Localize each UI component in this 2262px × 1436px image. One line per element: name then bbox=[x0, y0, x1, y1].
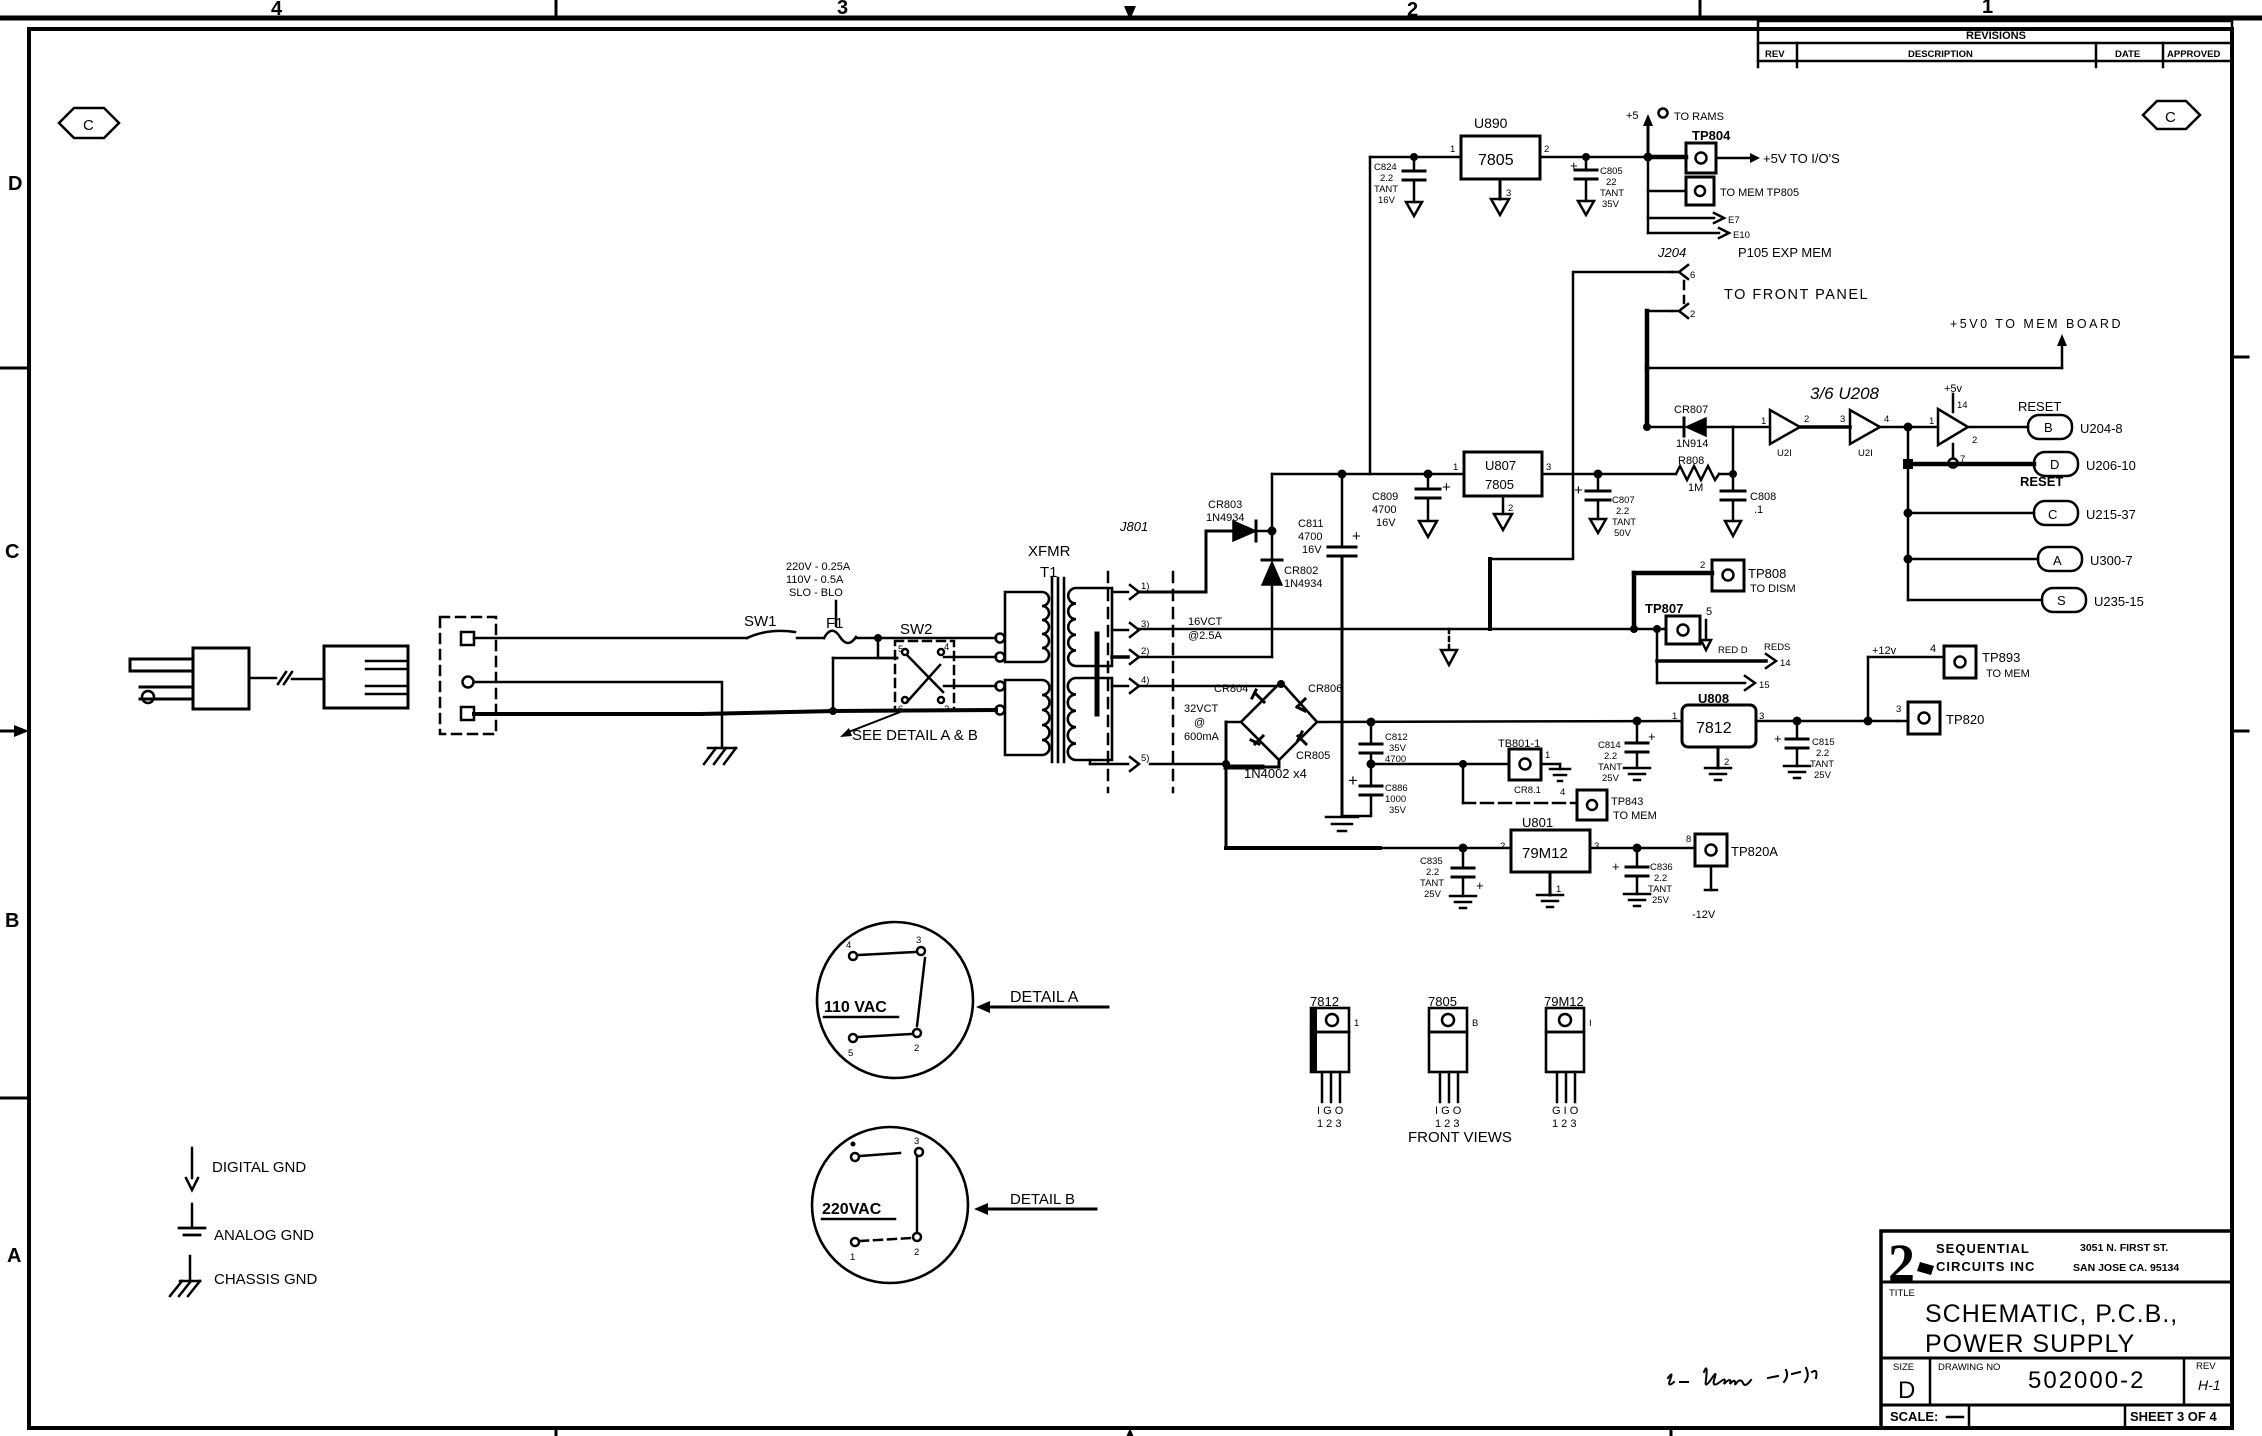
svg-text:U215-37: U215-37 bbox=[2086, 507, 2136, 522]
svg-text:+: + bbox=[1348, 771, 1358, 790]
svg-text:3: 3 bbox=[914, 1136, 919, 1147]
svg-text:U235-15: U235-15 bbox=[2094, 594, 2144, 609]
earth wire bbox=[474, 682, 722, 748]
wire node up to +8 rail bbox=[1271, 474, 1274, 531]
svg-text:CIRCUITS INC: CIRCUITS INC bbox=[1936, 1259, 2035, 1274]
line connector J1 bbox=[324, 646, 408, 708]
terminal block TB1 dashed bbox=[440, 617, 496, 734]
svg-text:+: + bbox=[1476, 878, 1484, 893]
svg-text:1: 1 bbox=[1556, 884, 1561, 895]
tag C row bbox=[1904, 501, 2136, 525]
svg-text:25V: 25V bbox=[1814, 770, 1832, 781]
svg-text:E7: E7 bbox=[1728, 215, 1740, 226]
fuse F1 bbox=[824, 615, 878, 643]
svg-text:220VAC: 220VAC bbox=[822, 1201, 882, 1218]
svg-text:2: 2 bbox=[1724, 757, 1729, 768]
svg-text:7812: 7812 bbox=[1696, 720, 1732, 737]
junction TP807 feed bbox=[1653, 625, 1661, 633]
svg-text:TP820A: TP820A bbox=[1731, 844, 1778, 859]
U890 output wire bbox=[1540, 156, 1648, 159]
svg-text:TP807: TP807 bbox=[1645, 601, 1683, 616]
see detail note bbox=[840, 712, 978, 744]
svg-text:3: 3 bbox=[1546, 462, 1551, 473]
svg-text:3: 3 bbox=[1594, 841, 1599, 852]
svg-text:TP893: TP893 bbox=[1982, 650, 2020, 665]
svg-text:DATE: DATE bbox=[2115, 49, 2140, 60]
reset bus vertical bbox=[1907, 427, 1910, 600]
TS801-1 row bbox=[1371, 738, 1570, 796]
J204 pin 2 bbox=[1672, 304, 1695, 320]
svg-text:J204: J204 bbox=[1657, 245, 1686, 260]
svg-text:2: 2 bbox=[1544, 144, 1549, 155]
xfmr core bbox=[1052, 578, 1064, 762]
svg-text:SEE DETAIL A & B: SEE DETAIL A & B bbox=[852, 727, 978, 744]
+5V0 line to mem board bbox=[1647, 317, 2123, 368]
svg-text:79M12: 79M12 bbox=[1522, 845, 1568, 862]
svg-text:4): 4) bbox=[1141, 675, 1149, 686]
detail A circle bbox=[817, 922, 973, 1078]
inverter U208c with pullup bbox=[1929, 383, 1977, 468]
svg-text:TP820: TP820 bbox=[1946, 712, 1984, 727]
svg-text:+: + bbox=[1648, 729, 1656, 744]
svg-text:C805: C805 bbox=[1600, 166, 1623, 177]
wire to xfmr top bbox=[878, 637, 996, 640]
svg-text:APPROVED: APPROVED bbox=[2167, 49, 2220, 60]
bridge bottom corner link bbox=[1262, 760, 1279, 767]
svg-text:16VCT: 16VCT bbox=[1188, 616, 1223, 628]
revision block bbox=[1758, 21, 2232, 67]
E10 stub bbox=[1648, 228, 1750, 241]
svg-text:REV: REV bbox=[1765, 49, 1785, 60]
svg-text:TP808: TP808 bbox=[1748, 566, 1786, 581]
U890 ground pin bbox=[1491, 179, 1511, 215]
svg-text:B: B bbox=[1472, 1018, 1478, 1029]
svg-text:I: I bbox=[1589, 1018, 1592, 1029]
svg-text:U206-10: U206-10 bbox=[2086, 458, 2136, 473]
svg-text:14: 14 bbox=[1780, 658, 1791, 669]
svg-text:4: 4 bbox=[1560, 787, 1565, 798]
wire pin6 to rail bbox=[1490, 272, 1672, 559]
svg-text:35V: 35V bbox=[1389, 805, 1407, 816]
svg-text:TO FRONT PANEL: TO FRONT PANEL bbox=[1724, 287, 1869, 303]
svg-text:1: 1 bbox=[1982, 0, 1993, 18]
svg-text:TO MEM: TO MEM bbox=[1986, 668, 2030, 680]
svg-text:+: + bbox=[1574, 482, 1583, 499]
chassis ground bbox=[704, 748, 736, 764]
svg-text:1000: 1000 bbox=[1385, 794, 1406, 805]
cap C812 bbox=[1360, 718, 1408, 766]
svg-text:2: 2 bbox=[1700, 560, 1705, 571]
svg-text:6: 6 bbox=[1690, 270, 1695, 281]
svg-text:B: B bbox=[5, 910, 19, 932]
svg-text:U2I: U2I bbox=[1777, 448, 1792, 459]
tag B bbox=[2028, 415, 2123, 439]
+8 rail bbox=[1272, 473, 1464, 476]
svg-text:2: 2 bbox=[914, 1043, 919, 1054]
connector J801 bbox=[1108, 519, 1173, 792]
svg-text:+5V TO I/O'S: +5V TO I/O'S bbox=[1763, 151, 1840, 166]
svg-text:1 2 3: 1 2 3 bbox=[1552, 1118, 1576, 1130]
svg-text:2: 2 bbox=[1407, 0, 1418, 21]
regulator U808 7812 bbox=[1672, 691, 1764, 780]
border outer tick line bbox=[0, 0, 2262, 20]
svg-text:25V: 25V bbox=[1652, 895, 1670, 906]
svg-text:1: 1 bbox=[850, 1252, 855, 1263]
hex revision marker C right bbox=[2143, 101, 2200, 129]
J801 pin 1 bbox=[1112, 581, 1149, 599]
svg-text:C814: C814 bbox=[1598, 740, 1621, 751]
inverter U208a bbox=[1761, 410, 1800, 459]
wire inv2 out bbox=[1880, 426, 1938, 429]
svg-text:TANT: TANT bbox=[1612, 517, 1636, 528]
wire junction down to SW2 bbox=[878, 638, 897, 658]
svg-text:SHEET 3 OF 4: SHEET 3 OF 4 bbox=[2130, 1409, 2217, 1424]
J204 pin 6 bbox=[1672, 265, 1695, 281]
svg-text:2.2: 2.2 bbox=[1604, 751, 1617, 762]
right border ticks bbox=[2232, 356, 2248, 359]
diode CR802 vertical bbox=[1262, 531, 1323, 657]
svg-text:4: 4 bbox=[271, 0, 283, 20]
tag A row bbox=[1904, 547, 2133, 571]
svg-text:C: C bbox=[2048, 507, 2057, 522]
svg-text:I G O: I G O bbox=[1435, 1105, 1462, 1117]
SW2 contacts bbox=[898, 621, 949, 715]
neutral bottom wire bbox=[474, 711, 833, 714]
TP808 feed bbox=[1632, 573, 1637, 629]
svg-text:50V: 50V bbox=[1614, 528, 1632, 539]
svg-text:POWER SUPPLY: POWER SUPPLY bbox=[1925, 1330, 2135, 1358]
svg-text:C807: C807 bbox=[1612, 495, 1635, 506]
detail A pointer bbox=[976, 989, 1108, 1013]
svg-text:SCHEMATIC, P.C.B.,: SCHEMATIC, P.C.B., bbox=[1925, 1300, 2178, 1328]
cap C809 bbox=[1372, 470, 1451, 538]
svg-text:C835: C835 bbox=[1420, 856, 1443, 867]
test point TP820A bbox=[1686, 834, 1778, 921]
svg-text:2: 2 bbox=[1804, 414, 1809, 425]
svg-text:TO MEM: TO MEM bbox=[1613, 810, 1657, 822]
svg-text:D: D bbox=[2050, 457, 2059, 472]
svg-text:5: 5 bbox=[1706, 606, 1712, 618]
svg-text:C886: C886 bbox=[1385, 783, 1408, 794]
TO-220 package 7812 bbox=[1310, 994, 1359, 1130]
svg-text:5: 5 bbox=[898, 644, 903, 655]
svg-text:E10: E10 bbox=[1733, 230, 1750, 241]
svg-text:2: 2 bbox=[1972, 435, 1977, 446]
svg-text:25V: 25V bbox=[1602, 773, 1620, 784]
svg-text:SAN JOSE CA. 95134: SAN JOSE CA. 95134 bbox=[2073, 1262, 2179, 1274]
wire U890 feed vertical bbox=[1369, 157, 1372, 474]
ground legend analog bbox=[179, 1204, 314, 1244]
svg-text:+5V0 TO MEM BOARD: +5V0 TO MEM BOARD bbox=[1950, 317, 2123, 331]
svg-text:15: 15 bbox=[1759, 680, 1770, 691]
svg-text:4700: 4700 bbox=[1372, 504, 1396, 516]
+5 distribution bus bbox=[1647, 157, 1650, 233]
diode CR807 bypass bbox=[1643, 404, 1737, 478]
J204 dashed body bbox=[1683, 281, 1686, 303]
svg-text:B: B bbox=[2044, 420, 2053, 435]
ground legend digital bbox=[186, 1148, 306, 1190]
svg-text:REDS: REDS bbox=[1764, 642, 1790, 653]
svg-text:C824: C824 bbox=[1374, 162, 1397, 173]
svg-text:TANT: TANT bbox=[1598, 762, 1622, 773]
svg-text:5: 5 bbox=[848, 1048, 853, 1059]
TB1 pin squares bbox=[461, 632, 474, 720]
svg-text:P105 EXP MEM: P105 EXP MEM bbox=[1738, 245, 1832, 260]
svg-text:ANALOG GND: ANALOG GND bbox=[214, 1227, 314, 1244]
detail B pointer bbox=[974, 1191, 1096, 1215]
svg-text:C: C bbox=[83, 117, 94, 134]
svg-text:1: 1 bbox=[1354, 1018, 1359, 1029]
svg-text:U300-7: U300-7 bbox=[2090, 553, 2133, 568]
svg-text:C: C bbox=[5, 541, 19, 563]
svg-text:220V - 0.25A: 220V - 0.25A bbox=[786, 561, 851, 573]
U890 input wire bbox=[1370, 156, 1461, 159]
wire pin4 to bridge top bbox=[1139, 685, 1278, 688]
svg-text:2.2: 2.2 bbox=[1426, 867, 1439, 878]
J801 pin 2 bbox=[1112, 646, 1149, 664]
svg-text:.1: .1 bbox=[1754, 504, 1763, 516]
svg-text:TO DISM: TO DISM bbox=[1750, 583, 1796, 595]
xfmr secondary winding upper bbox=[1068, 588, 1112, 666]
wire inv1-inv2 bbox=[1800, 425, 1850, 429]
ground legend chassis bbox=[170, 1256, 318, 1296]
svg-text:2.2: 2.2 bbox=[1816, 748, 1829, 759]
7812 output rail bbox=[1756, 720, 1898, 723]
svg-text:2: 2 bbox=[1500, 841, 1505, 852]
node junction live/SW2 bbox=[874, 634, 882, 642]
svg-text:+: + bbox=[1774, 731, 1782, 746]
svg-text:C811: C811 bbox=[1298, 518, 1323, 530]
svg-text:SIZE: SIZE bbox=[1893, 1362, 1914, 1373]
svg-text:2: 2 bbox=[1508, 503, 1513, 514]
wire pin2 +5V0 bbox=[1647, 310, 1672, 313]
svg-text:CHASSIS GND: CHASSIS GND bbox=[214, 1271, 318, 1288]
hex revision marker C left bbox=[59, 108, 119, 138]
svg-text:CR807: CR807 bbox=[1674, 404, 1708, 416]
svg-text:+: + bbox=[1612, 859, 1620, 874]
svg-text:REV: REV bbox=[2196, 1361, 2216, 1372]
79M12 output bbox=[1590, 847, 1695, 850]
U807 ground pin bbox=[1494, 496, 1513, 530]
switch SW2 dashed box bbox=[895, 641, 954, 710]
center rail from pin3 bbox=[1139, 628, 1666, 631]
svg-text:5): 5) bbox=[1141, 753, 1149, 764]
svg-text:RESET: RESET bbox=[2020, 474, 2063, 489]
svg-text:TP843: TP843 bbox=[1611, 796, 1643, 808]
svg-text:SLO - BLO: SLO - BLO bbox=[789, 587, 843, 599]
svg-text:G I O: G I O bbox=[1552, 1105, 1579, 1117]
svg-text:FRONT VIEWS: FRONT VIEWS bbox=[1408, 1129, 1512, 1146]
svg-text:+5: +5 bbox=[1626, 110, 1639, 122]
cap C805 bbox=[1570, 153, 1624, 215]
resistor R808 bbox=[1676, 455, 1733, 494]
bridge plus rail to regulators bbox=[1317, 721, 1682, 722]
svg-text:TP804: TP804 bbox=[1692, 128, 1731, 143]
svg-text:U807: U807 bbox=[1485, 458, 1516, 473]
+12V branch to TP893 bbox=[1864, 643, 2030, 726]
inverter U208b bbox=[1850, 410, 1880, 459]
svg-text:1N4934: 1N4934 bbox=[1284, 578, 1323, 590]
svg-text:SW2: SW2 bbox=[900, 621, 933, 638]
svg-text:110 VAC: 110 VAC bbox=[824, 999, 887, 1016]
svg-text:14: 14 bbox=[1957, 400, 1968, 411]
svg-text:TITLE: TITLE bbox=[1889, 1288, 1915, 1299]
wire live top bbox=[474, 637, 747, 640]
svg-text:1: 1 bbox=[1545, 750, 1550, 761]
svg-text:2: 2 bbox=[1690, 309, 1695, 320]
svg-text:TANT: TANT bbox=[1648, 884, 1672, 895]
SW2 output wires bbox=[944, 656, 996, 659]
svg-text:1M: 1M bbox=[1688, 482, 1703, 494]
svg-text:U2I: U2I bbox=[1858, 448, 1873, 459]
J801 pin 3 bbox=[1112, 619, 1149, 637]
svg-text:C815: C815 bbox=[1812, 737, 1835, 748]
left zone tick D/C bbox=[0, 367, 29, 370]
svg-text:1: 1 bbox=[1929, 416, 1934, 427]
bridge left corner wire bbox=[1226, 721, 1241, 724]
svg-text:16V: 16V bbox=[1378, 195, 1396, 206]
TO-220 package 79M12 bbox=[1544, 994, 1592, 1130]
cap C824 bbox=[1374, 153, 1425, 216]
svg-text:2.2: 2.2 bbox=[1654, 873, 1667, 884]
power cord bbox=[249, 672, 324, 684]
svg-text:CR806: CR806 bbox=[1308, 683, 1342, 695]
svg-text:S: S bbox=[2057, 593, 2066, 608]
svg-text:CR805: CR805 bbox=[1296, 750, 1330, 762]
wire pin2 row bbox=[1139, 656, 1272, 659]
svg-text:4: 4 bbox=[1884, 414, 1889, 425]
svg-text:A: A bbox=[2053, 553, 2062, 568]
svg-text:32VCT: 32VCT bbox=[1184, 703, 1219, 715]
pins 14 15 bbox=[1657, 629, 1791, 691]
svg-text:-12V: -12V bbox=[1692, 909, 1716, 921]
svg-text:25V: 25V bbox=[1424, 889, 1442, 900]
svg-text:22: 22 bbox=[1606, 177, 1617, 188]
svg-text:TANT: TANT bbox=[1600, 188, 1624, 199]
svg-text:502000-2: 502000-2 bbox=[2028, 1367, 2145, 1394]
svg-text:XFMR: XFMR bbox=[1028, 543, 1071, 560]
svg-text:@: @ bbox=[1194, 717, 1205, 729]
svg-text:1): 1) bbox=[1141, 581, 1149, 592]
svg-text:TO RAMS: TO RAMS bbox=[1674, 111, 1724, 123]
svg-text:DETAIL B: DETAIL B bbox=[1010, 1191, 1075, 1208]
svg-text:3: 3 bbox=[916, 935, 921, 946]
svg-text:4: 4 bbox=[944, 642, 949, 653]
svg-text:SCALE:: SCALE: bbox=[1890, 1409, 1938, 1424]
cap C815 bbox=[1774, 717, 1835, 782]
svg-text:35V: 35V bbox=[1602, 199, 1620, 210]
svg-text:H-1: H-1 bbox=[2198, 1377, 2221, 1393]
test point TP804 bbox=[1648, 128, 1840, 173]
svg-text:DETAIL A: DETAIL A bbox=[1010, 989, 1079, 1006]
svg-text:2.2: 2.2 bbox=[1616, 506, 1629, 517]
svg-text:16V: 16V bbox=[1302, 544, 1322, 556]
svg-text:600mA: 600mA bbox=[1184, 731, 1220, 743]
svg-text:3/6 U208: 3/6 U208 bbox=[1810, 384, 1880, 403]
wire pin5 to neg column bbox=[1150, 763, 1226, 766]
svg-text:@2.5A: @2.5A bbox=[1188, 630, 1222, 642]
reset output to tag B bbox=[1968, 426, 2028, 429]
ground bars main bus bbox=[1326, 817, 1358, 831]
svg-text:7805: 7805 bbox=[1478, 152, 1514, 169]
svg-text:+: + bbox=[1442, 479, 1451, 496]
test point TP805 bbox=[1648, 177, 1799, 205]
cap C835 bbox=[1420, 844, 1484, 909]
svg-text:4: 4 bbox=[1930, 643, 1936, 655]
cap C807 bbox=[1574, 470, 1636, 540]
svg-text:4: 4 bbox=[846, 940, 851, 951]
svg-text:1 2 3: 1 2 3 bbox=[1317, 1118, 1341, 1130]
detail B circle bbox=[812, 1127, 968, 1283]
svg-text:1: 1 bbox=[1453, 462, 1458, 473]
svg-text:R808: R808 bbox=[1678, 455, 1704, 467]
svg-text:A: A bbox=[7, 1245, 21, 1267]
E7 stub bbox=[1648, 213, 1740, 226]
digital ground on rail bbox=[1441, 629, 1457, 665]
svg-text:16V: 16V bbox=[1376, 517, 1396, 529]
svg-text:U801: U801 bbox=[1522, 815, 1553, 830]
bridge rectifier diamond bbox=[1214, 680, 1342, 781]
svg-text:J801: J801 bbox=[1119, 519, 1148, 534]
svg-text:TO MEM TP805: TO MEM TP805 bbox=[1720, 187, 1799, 199]
svg-text:3: 3 bbox=[1840, 414, 1845, 425]
svg-text:DIGITAL GND: DIGITAL GND bbox=[212, 1159, 306, 1176]
xfmr primary winding upper bbox=[1005, 592, 1049, 662]
+5 node arrow to rams bbox=[1626, 109, 1724, 162]
diode CR803 bbox=[1206, 499, 1272, 541]
svg-text:2): 2) bbox=[1141, 646, 1149, 657]
test point TP808 bbox=[1634, 560, 1796, 595]
switch SW1 bbox=[744, 613, 824, 638]
svg-text:1: 1 bbox=[1672, 711, 1677, 722]
svg-text:U890: U890 bbox=[1474, 115, 1508, 131]
svg-text:2: 2 bbox=[914, 1247, 919, 1258]
node +8V unreg bbox=[1268, 527, 1277, 536]
svg-text:RESET: RESET bbox=[2018, 399, 2061, 414]
cap C836 bbox=[1612, 844, 1673, 907]
xfmr secondary winding lower bbox=[1068, 678, 1112, 760]
svg-text:+12v: +12v bbox=[1872, 645, 1897, 657]
svg-text:3: 3 bbox=[1896, 704, 1901, 715]
cap C811 bbox=[1298, 470, 1361, 817]
svg-text:U204-8: U204-8 bbox=[2080, 421, 2123, 436]
regulator U807 bbox=[1453, 452, 1551, 496]
svg-text:I G O: I G O bbox=[1317, 1105, 1344, 1117]
svg-text:TANT: TANT bbox=[1374, 184, 1398, 195]
regulator U890 bbox=[1450, 115, 1549, 179]
test point TP807 bbox=[1645, 601, 1748, 656]
svg-text:1N914: 1N914 bbox=[1676, 438, 1708, 450]
svg-text:CR8.1: CR8.1 bbox=[1514, 785, 1541, 796]
svg-text:D: D bbox=[1898, 1377, 1915, 1404]
signature bbox=[1668, 1368, 1817, 1385]
svg-text:2: 2 bbox=[1888, 1233, 1915, 1293]
svg-text:C809: C809 bbox=[1372, 491, 1398, 503]
test point TP820 bbox=[1896, 702, 1984, 734]
svg-text:3051 N. FIRST ST.: 3051 N. FIRST ST. bbox=[2080, 1242, 2168, 1254]
title block bbox=[1881, 1231, 2232, 1428]
left zone tick B/A bbox=[0, 1097, 29, 1100]
xfmr primary winding lower bbox=[1005, 680, 1050, 755]
svg-text:T1: T1 bbox=[1040, 564, 1058, 581]
+5 output rail of U807 bbox=[1542, 473, 1676, 476]
AC plug P1 bbox=[130, 648, 249, 709]
svg-text:C836: C836 bbox=[1650, 862, 1673, 873]
svg-text:4700: 4700 bbox=[1298, 531, 1322, 543]
svg-text:SEQUENTIAL: SEQUENTIAL bbox=[1936, 1241, 2030, 1256]
svg-text:1N4934: 1N4934 bbox=[1206, 512, 1245, 524]
minus rail to 79M12 bbox=[1226, 846, 1380, 850]
